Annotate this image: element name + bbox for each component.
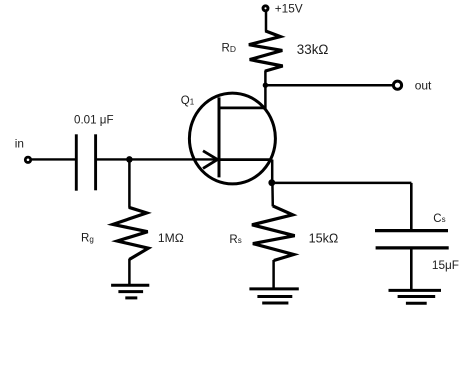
- ground: [389, 290, 442, 303]
- wire: [410, 183, 413, 231]
- svg-text:in: in: [15, 136, 24, 150]
- svg-text:RD: RD: [222, 42, 236, 54]
- input terminal: [25, 157, 30, 162]
- wire: [272, 182, 412, 185]
- ground: [249, 289, 298, 303]
- wire: [271, 183, 274, 207]
- wire: [128, 159, 131, 207]
- wire: [95, 158, 219, 160]
- transistor Q1: [189, 93, 275, 184]
- node drain junction: [263, 83, 268, 88]
- output terminal: [393, 81, 401, 89]
- wire: [272, 260, 275, 288]
- svg-text:Cs: Cs: [433, 213, 445, 225]
- svg-text:Rg: Rg: [81, 232, 94, 244]
- power terminal +15V: [263, 6, 268, 11]
- resistor RD: [249, 31, 283, 71]
- svg-text:15μF: 15μF: [432, 258, 459, 272]
- wire: [410, 248, 413, 289]
- resistor Rg: [113, 207, 148, 259]
- wire: [264, 71, 267, 109]
- wire: [265, 84, 392, 87]
- node gate junction: [126, 156, 133, 163]
- svg-text:Rs: Rs: [229, 234, 241, 246]
- svg-text:15kΩ: 15kΩ: [309, 232, 339, 246]
- wire: [271, 160, 274, 183]
- svg-text:+15V: +15V: [275, 2, 303, 16]
- svg-text:out: out: [415, 78, 432, 92]
- capacitor C1 (input coupling): [76, 134, 95, 190]
- ground: [111, 285, 149, 298]
- wire: [128, 259, 131, 284]
- wire: [31, 158, 77, 160]
- svg-text:Q1: Q1: [181, 95, 195, 107]
- svg-text:0.01 μF: 0.01 μF: [74, 113, 114, 126]
- resistor Rs: [252, 206, 295, 261]
- wire: [265, 12, 268, 32]
- node source junction: [268, 179, 275, 186]
- capacitor Cs: [375, 231, 449, 248]
- svg-text:33kΩ: 33kΩ: [297, 42, 329, 57]
- svg-text:1MΩ: 1MΩ: [158, 231, 184, 245]
